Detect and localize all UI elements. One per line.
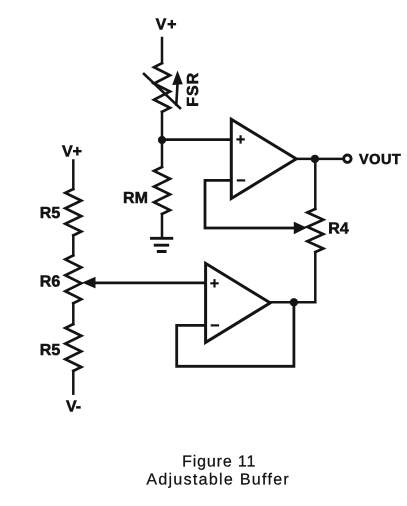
svg-text:FSR: FSR (185, 72, 202, 107)
svg-text:R4: R4 (328, 220, 349, 237)
svg-text:VOUT: VOUT (359, 152, 401, 168)
svg-text:R5: R5 (40, 205, 61, 222)
svg-text:RM: RM (123, 190, 148, 207)
svg-text:R6: R6 (40, 274, 61, 291)
svg-text:V-: V- (66, 398, 81, 415)
svg-text:Figure 11: Figure 11 (182, 453, 256, 470)
svg-text:Adjustable Buffer: Adjustable Buffer (146, 471, 290, 488)
svg-text:R5: R5 (40, 342, 61, 359)
svg-text:V+: V+ (62, 144, 82, 161)
svg-text:V+: V+ (156, 17, 178, 34)
